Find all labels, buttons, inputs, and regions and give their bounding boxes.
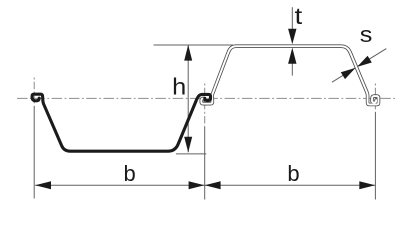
arrowhead h up bbox=[184, 45, 192, 61]
dimension line b right bbox=[205, 184, 376, 186]
svg-text:h: h bbox=[172, 73, 186, 99]
arrowhead s upper bbox=[357, 56, 372, 67]
arrowhead s lower bbox=[341, 68, 356, 79]
dimension line b left bbox=[35, 184, 204, 186]
h top extension line bbox=[154, 44, 234, 46]
center interlock vertical center line bbox=[204, 84, 206, 200]
right sheet pile thin profile white core bbox=[201, 46, 378, 104]
dimension line h bbox=[187, 45, 189, 152]
arrowhead b-right east bbox=[359, 181, 375, 189]
svg-text:b: b bbox=[287, 161, 299, 186]
dimension line s bbox=[332, 49, 386, 83]
arrowhead b-left west bbox=[35, 181, 51, 189]
h bottom extension line bbox=[176, 153, 206, 155]
left sheet pile (thick profile) bbox=[32, 94, 210, 151]
arrowhead b-left east bbox=[189, 181, 205, 189]
right sheet pile thin profile outer stroke bbox=[201, 46, 378, 104]
arrowhead t up bbox=[288, 48, 296, 64]
dimension line t lower segment bbox=[291, 63, 293, 75]
svg-text:b: b bbox=[124, 161, 136, 186]
arrowhead h down bbox=[184, 137, 192, 153]
svg-text:s: s bbox=[360, 22, 373, 47]
svg-text:t: t bbox=[295, 3, 303, 29]
arrowhead b-right west bbox=[205, 181, 221, 189]
arrowhead t down bbox=[288, 29, 296, 45]
horizontal center line bbox=[17, 97, 395, 99]
left interlock vertical center line bbox=[33, 78, 35, 199]
right interlock vertical center line bbox=[374, 84, 376, 200]
dimension line t upper segment bbox=[291, 7, 293, 29]
